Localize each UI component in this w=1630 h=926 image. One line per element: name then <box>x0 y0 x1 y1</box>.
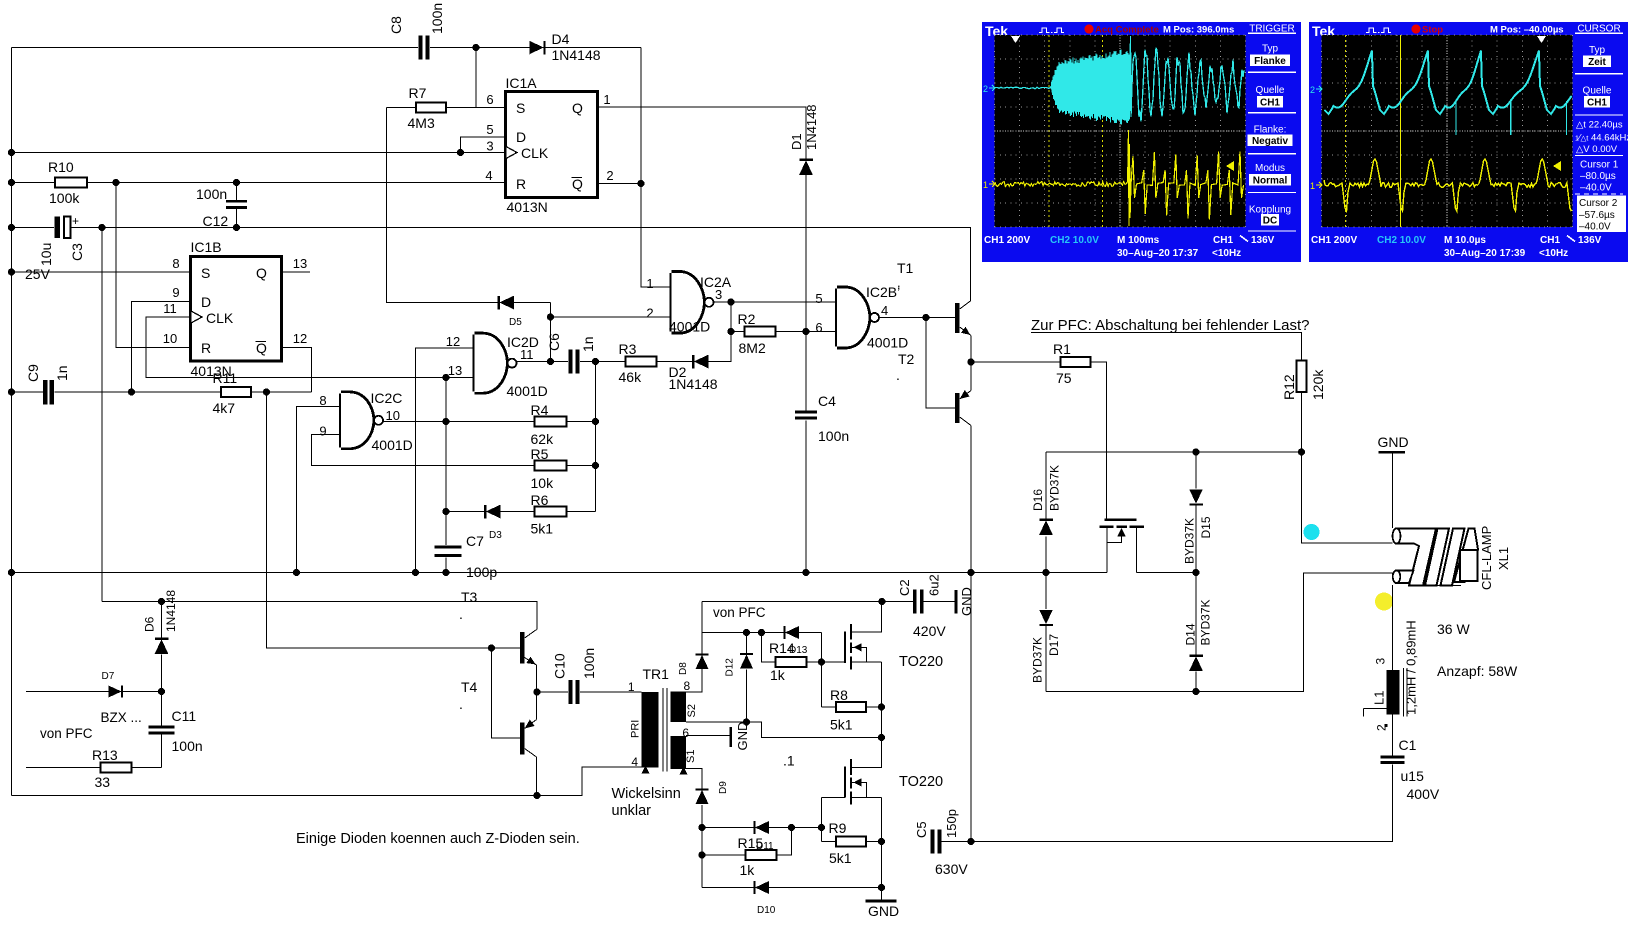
svg-text:von PFC: von PFC <box>713 605 766 620</box>
scope body <box>982 22 1301 262</box>
wire IC1A pin 1 to D1 and C4 to bus <box>598 107 807 411</box>
wire IC1A pin 2 <box>598 183 642 185</box>
svg-text:–40.0V: –40.0V <box>1580 183 1612 194</box>
node R15 row junction <box>698 851 705 858</box>
svg-text:CH1: CH1 <box>1540 235 1560 246</box>
wire IC1B pin 10 R <box>116 183 191 348</box>
node C2 junction <box>878 598 885 605</box>
wire von PFC row <box>702 601 913 603</box>
svg-text:4001D: 4001D <box>372 437 413 453</box>
svg-text:R8: R8 <box>830 687 848 703</box>
resistor R15 1k <box>702 854 746 856</box>
wire R5 right <box>567 465 596 467</box>
svg-text:120k: 120k <box>1310 369 1326 400</box>
svg-text:D: D <box>201 294 211 310</box>
svg-text:36 W: 36 W <box>1437 621 1470 637</box>
wire IC1B pin 13 stub <box>282 271 311 273</box>
svg-text:L1: L1 <box>1372 691 1387 705</box>
wire IC2C pin 9 <box>312 435 535 466</box>
diode D11 <box>755 821 769 834</box>
wire IC2B output to T1 base <box>879 317 955 319</box>
node bus IC2C pin8 <box>293 569 300 576</box>
wire R2 row to IC2B pin6 <box>731 331 837 333</box>
svg-text:GND: GND <box>735 722 750 751</box>
wire T2 collector to bus to C5 <box>970 426 972 842</box>
svg-text:Flanke: Flanke <box>1254 56 1286 67</box>
svg-text:5: 5 <box>486 122 493 137</box>
node IC1A pin5 junction <box>457 149 464 156</box>
wire pin13-pin10 vertical with C7 <box>445 378 447 546</box>
wire R13 row <box>26 767 162 769</box>
svg-text:1⁄△t 44.64kHz: 1⁄△t 44.64kHz <box>1575 133 1630 144</box>
wire C2 to GND bar <box>924 601 956 603</box>
svg-text:D9: D9 <box>718 781 729 794</box>
svg-text:Einige Dioden koennen auch Z-D: Einige Dioden koennen auch Z-Dioden sein… <box>296 831 580 847</box>
node R1 junction <box>967 358 974 365</box>
node D12 top junction <box>743 629 750 636</box>
resistor R13 33 <box>101 763 132 773</box>
wire IC2C output to R4 <box>383 421 535 423</box>
svg-text:TR1: TR1 <box>643 666 670 682</box>
svg-text:BYD37K: BYD37K <box>1048 465 1062 511</box>
resistor R7 4M3 <box>387 107 506 109</box>
svg-text:3: 3 <box>486 139 493 154</box>
capacitor C8 <box>419 36 423 60</box>
svg-text:1k: 1k <box>740 862 756 878</box>
svg-text:CLK: CLK <box>521 145 549 161</box>
diode D2 1N4148 <box>694 355 709 369</box>
svg-text:75: 75 <box>1056 370 1072 386</box>
svg-text:CH1: CH1 <box>1260 98 1280 109</box>
diode D5 <box>499 296 514 310</box>
svg-text:4k7: 4k7 <box>213 400 236 416</box>
capacitor C5 150p <box>931 830 935 854</box>
svg-text:Stop: Stop <box>1422 25 1443 36</box>
wire IC1A CLK line <box>12 152 506 154</box>
svg-text:.: . <box>459 606 463 622</box>
wire gate drive row D13 <box>702 632 822 634</box>
svg-text:CLK: CLK <box>206 310 234 326</box>
svg-text:D10: D10 <box>757 905 776 916</box>
svg-text:BZX ...: BZX ... <box>101 710 142 725</box>
svg-text:R2: R2 <box>738 311 756 327</box>
ground centre tap GND bar <box>729 727 732 747</box>
wire lower source vertical to GND <box>881 798 883 901</box>
wire T3 emitter to C10 node <box>536 665 538 692</box>
svg-text:Zur PFC: Abschaltung bei fehle: Zur PFC: Abschaltung bei fehlender Last? <box>1031 317 1310 334</box>
svg-text:1: 1 <box>603 92 610 107</box>
svg-text:1N4148: 1N4148 <box>552 47 601 63</box>
scope graticule <box>1322 35 1573 227</box>
svg-text:<10Hz: <10Hz <box>1539 248 1568 259</box>
svg-text:S: S <box>201 265 210 281</box>
wire IC2C pin 8 <box>297 407 342 573</box>
wire IC2D pin 12 from bus <box>416 348 475 573</box>
transformer TR1 secondary S1 <box>671 736 687 769</box>
node gate lower junction <box>818 824 825 831</box>
node IC2C out junction <box>442 418 449 425</box>
wire R6 right <box>567 511 596 513</box>
diode D14 BYD37K <box>1189 656 1203 671</box>
scope1 channel2 trace cyan <box>995 36 1244 125</box>
svg-text:2: 2 <box>606 168 613 183</box>
diode D8 <box>696 655 709 669</box>
node bus T2 junction <box>967 569 974 576</box>
svg-text:4001D: 4001D <box>669 319 710 335</box>
svg-text:D16: D16 <box>1031 489 1045 511</box>
svg-text:Acq Complete: Acq Complete <box>1095 25 1159 36</box>
svg-text:S2: S2 <box>686 704 698 717</box>
wire R11 junction to T3 T4 base <box>267 392 521 648</box>
node C12 bottom junction <box>233 224 240 231</box>
capacitor C11 100n <box>161 692 163 726</box>
svg-text:5k1: 5k1 <box>531 521 554 537</box>
node C8-D4 junction <box>472 44 479 51</box>
wire left rail <box>11 48 13 796</box>
oscilloscope screenshot 1 Tek TDS <box>982 22 1301 262</box>
wire R7 to D5 <box>387 108 551 303</box>
resistor R14 1k <box>762 633 776 663</box>
svg-text:IC1B: IC1B <box>191 239 222 255</box>
mosfet Q lamp switch <box>1106 518 1108 520</box>
svg-text:Anzapf: 58W: Anzapf: 58W <box>1437 663 1518 679</box>
svg-text:Q: Q <box>256 340 267 356</box>
svg-text:D1: D1 <box>789 133 804 150</box>
wire D4 to IC2A pin 1 <box>641 48 672 288</box>
wire bottom rail <box>12 767 642 796</box>
svg-text:BYD37K: BYD37K <box>1199 599 1213 645</box>
scope2 trigger marker <box>1537 36 1546 43</box>
wire D15 D14 vertical <box>1195 452 1197 489</box>
node IC2A pin2 junction <box>547 313 554 320</box>
node R2 left junction <box>727 328 734 335</box>
mosfet lower TO220 <box>844 767 846 798</box>
wire C1 to C5 row <box>942 764 1393 841</box>
svg-text:11: 11 <box>163 301 177 316</box>
svg-text:CH1 200V: CH1 200V <box>984 235 1030 246</box>
svg-text:4: 4 <box>631 755 638 769</box>
svg-text:4: 4 <box>881 303 888 318</box>
node C10 junction <box>533 688 540 695</box>
svg-text:Q: Q <box>256 265 267 281</box>
node R2 right D1C4 junction <box>802 328 809 335</box>
resistor R9 5k1 <box>822 841 837 843</box>
wire R10 row to IC1A pin 4 <box>12 182 506 184</box>
svg-text:CH2 10.0V: CH2 10.0V <box>1050 235 1099 246</box>
ground C2 GND bar <box>955 590 958 614</box>
transistor T3 <box>520 632 525 664</box>
svg-text:Zeit: Zeit <box>1588 57 1606 68</box>
diode D10 <box>755 881 769 894</box>
svg-text:C8: C8 <box>388 16 404 34</box>
svg-text:△t 22.40µs: △t 22.40µs <box>1576 120 1623 131</box>
svg-text:13: 13 <box>448 363 462 378</box>
scope screen <box>995 35 1246 227</box>
wire D10 row <box>702 887 882 889</box>
svg-text:CH1: CH1 <box>1587 98 1607 109</box>
diode D15 BYD37K <box>1189 489 1203 504</box>
node C12 top junction <box>233 179 240 186</box>
svg-text:GND: GND <box>868 903 899 919</box>
svg-text:1: 1 <box>1310 181 1315 191</box>
wire L1 to C1 <box>1392 715 1394 756</box>
node T3 base junction <box>488 644 495 651</box>
svg-text:150p: 150p <box>944 809 959 838</box>
svg-text:R14: R14 <box>769 640 795 656</box>
svg-text:△V 0.00V: △V 0.00V <box>1576 144 1618 155</box>
svg-text:C9: C9 <box>25 364 41 382</box>
svg-text:Typ: Typ <box>1262 44 1279 55</box>
svg-text:C12: C12 <box>203 213 229 229</box>
svg-text:46k: 46k <box>619 369 643 385</box>
svg-text:8: 8 <box>684 679 691 693</box>
svg-text:10: 10 <box>163 331 177 346</box>
svg-text:C6: C6 <box>546 333 562 351</box>
svg-text:Quelle: Quelle <box>1583 86 1612 97</box>
diode D4 1N4148 <box>529 41 544 55</box>
node D6 top junction <box>158 598 165 605</box>
node IC2A out junction <box>727 298 734 305</box>
node left rail 25V row <box>8 268 15 275</box>
wire to T4 base <box>492 648 521 738</box>
node bus C4 <box>802 569 809 576</box>
svg-text:136V: 136V <box>1578 235 1602 246</box>
diode D6 1N4148 <box>161 602 163 639</box>
capacitor C6 1n <box>569 350 573 374</box>
diode D9 <box>696 790 709 804</box>
node T1 T2 base junction <box>922 314 929 321</box>
IC chip IC1B 4013N <box>191 257 282 362</box>
svg-text:1N4148: 1N4148 <box>669 376 718 392</box>
wire S2 pin8 to D8 <box>686 655 702 693</box>
svg-text:33: 33 <box>95 774 111 790</box>
svg-text:C1: C1 <box>1399 737 1417 753</box>
svg-text:+: + <box>72 214 79 228</box>
svg-text:4001D: 4001D <box>867 335 908 351</box>
svg-text:400V: 400V <box>1407 786 1440 802</box>
transformer TR1 core <box>662 688 664 772</box>
winding sense arrows <box>642 766 650 774</box>
capacitor C9 1n <box>12 391 44 393</box>
node D15 top junction <box>1192 448 1199 455</box>
ground bottom GND <box>866 900 897 903</box>
svg-text:D6: D6 <box>143 616 157 632</box>
svg-text:2: 2 <box>1310 85 1315 95</box>
svg-text:D14: D14 <box>1184 623 1198 645</box>
svg-text:3: 3 <box>1374 658 1388 665</box>
svg-text:CH1: CH1 <box>1213 235 1233 246</box>
svg-text:R15: R15 <box>738 835 764 851</box>
marker cyan dot <box>1304 524 1320 540</box>
diode D1 1N4148 <box>799 160 813 175</box>
svg-text:D3: D3 <box>489 530 502 541</box>
svg-text:C11: C11 <box>172 708 197 724</box>
node gate upper junction <box>818 658 825 665</box>
wire R1 row <box>971 361 1061 363</box>
node bottom rail T4 <box>533 792 540 799</box>
capacitor C2 6u2 <box>913 590 917 614</box>
svg-text:.: . <box>459 696 463 712</box>
node bus D16 junction <box>1042 569 1049 576</box>
svg-text:30–Aug–20 17:39: 30–Aug–20 17:39 <box>1444 248 1526 259</box>
wire T4 top to C10 node <box>536 692 538 720</box>
marker yellow dot <box>1375 593 1393 611</box>
svg-text:IC2C: IC2C <box>371 390 403 406</box>
resistor R8 5k1 <box>822 706 837 708</box>
svg-text:D12: D12 <box>725 658 736 677</box>
svg-text:BYD37K: BYD37K <box>1183 518 1197 564</box>
svg-text:von PFC: von PFC <box>40 726 93 741</box>
capacitor C12 100n <box>236 183 238 201</box>
svg-text:13: 13 <box>293 256 307 271</box>
scope acq status <box>1085 25 1094 34</box>
resistor R1 75 <box>1061 357 1091 367</box>
svg-text:5k1: 5k1 <box>830 717 853 733</box>
svg-text:1: 1 <box>983 180 988 190</box>
svg-text:100n: 100n <box>172 738 203 754</box>
transformer TR1 primary <box>642 692 659 768</box>
mosfet upper TO220 <box>844 632 846 664</box>
svg-text:TO220: TO220 <box>899 774 943 790</box>
svg-text:1N4148: 1N4148 <box>804 104 819 150</box>
svg-text:Normal: Normal <box>1253 175 1288 186</box>
svg-text:M Pos: –40.00µs: M Pos: –40.00µs <box>1490 25 1564 36</box>
node IC2D output junction <box>547 358 554 365</box>
svg-text:Cursor 1: Cursor 1 <box>1580 160 1619 171</box>
svg-text:CH1 200V: CH1 200V <box>1311 235 1357 246</box>
svg-text:D4: D4 <box>552 31 570 47</box>
svg-text:12: 12 <box>446 334 460 349</box>
svg-text:M 10.0µs: M 10.0µs <box>1444 235 1486 246</box>
capacitor C1 u15 400V <box>1381 756 1405 759</box>
svg-text:D8: D8 <box>678 662 689 675</box>
svg-text:Quelle: Quelle <box>1256 85 1285 96</box>
scope acq icon <box>1039 28 1064 33</box>
svg-text:D7: D7 <box>102 671 115 682</box>
svg-text:100n: 100n <box>429 3 445 34</box>
node D12 bottom junction <box>743 718 750 725</box>
svg-text:<10Hz: <10Hz <box>1212 248 1241 259</box>
svg-text:9: 9 <box>319 424 326 439</box>
svg-text:420V: 420V <box>913 623 946 639</box>
svg-text:Cursor 2: Cursor 2 <box>1579 198 1618 209</box>
svg-text:Q: Q <box>572 100 583 116</box>
diode D13 <box>785 626 799 639</box>
svg-text:6: 6 <box>682 726 689 740</box>
svg-text:R13: R13 <box>92 747 118 763</box>
node left rail C3 row <box>8 224 15 231</box>
svg-text:R12: R12 <box>1281 374 1297 400</box>
resistor R11 4k7 <box>221 387 251 397</box>
svg-text:CH2 10.0V: CH2 10.0V <box>1377 235 1426 246</box>
svg-text:–40.0V: –40.0V <box>1579 222 1611 233</box>
scope1 cursor lines <box>1048 35 1050 227</box>
wire C3 row <box>12 227 55 229</box>
wire IC2A output to IC2B pin5 <box>714 301 838 303</box>
svg-text:R: R <box>201 340 211 356</box>
svg-text:136V: 136V <box>1251 235 1275 246</box>
wire S2 bottom centre tap <box>686 722 882 738</box>
wire R4 right <box>567 421 596 423</box>
svg-text:8: 8 <box>172 256 179 271</box>
node bus C7 junction <box>442 569 449 576</box>
resistor R3 46k <box>626 357 657 367</box>
node R4 right junction <box>592 418 599 425</box>
scope1 menu <box>1248 32 1296 34</box>
svg-text:1: 1 <box>646 276 653 291</box>
wire lower gate wire <box>822 797 846 799</box>
svg-text:100n: 100n <box>196 186 227 202</box>
wire IC2D output through C6 <box>517 361 569 363</box>
wire D8 to von PFC row <box>701 602 703 671</box>
transformer TR1 secondary S2 <box>671 692 687 723</box>
svg-text:Flanke:: Flanke: <box>1254 125 1287 136</box>
svg-text:S: S <box>516 100 525 116</box>
node bus left rail <box>8 569 15 576</box>
node R15 right junction <box>788 824 795 831</box>
svg-text:GND: GND <box>959 587 974 616</box>
wire lamp feed from R12 node <box>1302 452 1393 543</box>
svg-text:630V: 630V <box>935 861 968 877</box>
capacitor C4 <box>795 411 817 414</box>
svg-text:Typ: Typ <box>1589 45 1606 56</box>
svg-text:100k: 100k <box>49 190 80 206</box>
wire IC1B pin 12 to R11 row <box>282 348 312 393</box>
svg-text:R11: R11 <box>213 370 238 386</box>
oscilloscope screenshot 2 Tek TDS <box>1309 22 1630 262</box>
svg-text:M Pos: 396.0ms: M Pos: 396.0ms <box>1163 25 1234 36</box>
svg-text:C5: C5 <box>914 821 929 838</box>
node R12 bottom junction <box>1298 448 1305 455</box>
svg-text:C10: C10 <box>552 653 568 679</box>
svg-text:unklar: unklar <box>612 803 652 819</box>
scope2 channel2 trace cyan <box>1325 51 1572 115</box>
svg-text:D5: D5 <box>509 317 522 328</box>
resistor R6 5k1 <box>535 507 567 517</box>
svg-text:GND: GND <box>1378 434 1409 450</box>
node R5 right junction <box>592 462 599 469</box>
wire D16 D17 vertical <box>1045 452 1047 520</box>
svg-text:IC2B’: IC2B’ <box>866 284 900 300</box>
capacitor C3 10u electrolytic <box>55 217 61 239</box>
svg-text:5k1: 5k1 <box>829 850 852 866</box>
wire C8 junction to IC1A pin 6 <box>475 48 477 108</box>
svg-text:.1: .1 <box>783 753 795 769</box>
svg-text:4013N: 4013N <box>507 199 548 215</box>
svg-text:9: 9 <box>172 285 179 300</box>
IC chip IC1A 4013N <box>506 92 598 198</box>
svg-text:D17: D17 <box>1047 634 1061 656</box>
node left rail R10 row <box>8 179 15 186</box>
resistor R5 10k <box>535 461 567 471</box>
scope1 trigger marker <box>1011 36 1020 43</box>
scope acq icon <box>1366 28 1391 33</box>
diode D3 <box>486 505 501 519</box>
svg-text:3: 3 <box>715 287 722 302</box>
svg-text:25V: 25V <box>25 266 51 282</box>
svg-text:10k: 10k <box>531 475 555 491</box>
wire IC1A pin 5 D <box>461 137 506 153</box>
svg-text:CFL-LAMP: CFL-LAMP <box>1479 526 1494 590</box>
svg-text:11: 11 <box>520 347 534 362</box>
svg-text:8: 8 <box>319 393 326 408</box>
resistor R12 120k <box>1297 361 1307 393</box>
wire D5 node vertical <box>550 303 552 362</box>
wire R4R5R6 right vertical <box>595 362 597 512</box>
scope2 channel1 trace yellow <box>1324 159 1571 211</box>
svg-text:4M3: 4M3 <box>408 115 435 131</box>
svg-text:10u: 10u <box>38 243 54 266</box>
